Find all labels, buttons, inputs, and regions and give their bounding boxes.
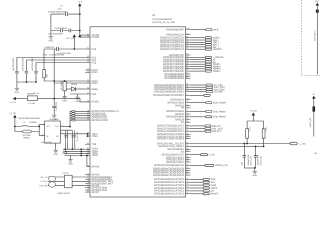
- power flag +3V3 left: [13, 115, 16, 118]
- wire rail gnd stub: [16, 82, 18, 87]
- net flag AUX_PW1 87.2: [206, 86, 213, 88]
- svg-text:caM_1uF/X5R: caM_1uF/X5R: [41, 141, 53, 144]
- wire C62 stem: [53, 99, 55, 106]
- U5 right pin numbers: [186, 27, 189, 194]
- net flag CH_PB2 91.6: [206, 91, 213, 93]
- power flag +1V1: [13, 97, 16, 100]
- wire R8 to SDA: [246, 138, 248, 143]
- wire to net flag CH_PB2 91.6: [191, 91, 206, 93]
- svg-text:TAS2WLM8978: TAS2WLM8978: [152, 18, 173, 21]
- junction clk riser: [69, 126, 71, 128]
- wire VCL stem: [73, 37, 75, 49]
- net flag SCL 182.2: [203, 181, 209, 183]
- ferrite bead FB5 on TDI: [72, 115, 76, 117]
- svg-text:44: 44: [186, 189, 188, 192]
- net flag WLRS 37.7: [205, 37, 211, 39]
- net flag AUD_PWM1 102.6: [206, 102, 212, 104]
- svg-text:66: 66: [186, 126, 188, 129]
- wire D2 cathode: [76, 88, 90, 90]
- capacitor C66 column: [71, 130, 76, 143]
- svg-text:HSMS: HSMS: [71, 83, 78, 86]
- svg-text:GND: GND: [68, 163, 73, 166]
- svg-text:48: 48: [87, 81, 89, 84]
- wire C52 branch: [51, 13, 80, 15]
- wire X2 gnd stem: [55, 143, 57, 149]
- svg-text:Y2_WCLK: Y2_WCLK: [76, 131, 79, 142]
- ground mid A: [75, 96, 79, 100]
- svg-text:85: 85: [186, 69, 188, 72]
- svg-text:48: 48: [186, 177, 188, 180]
- wire jtag TCK: [70, 110, 90, 112]
- capacitor C62: [52, 106, 56, 107]
- wire C63 riser: [243, 144, 245, 156]
- power flag VDD_1V8: [78, 34, 81, 37]
- wire to net flag CMOS_CLK 165.3: [191, 164, 205, 166]
- capacitor C61: [34, 72, 38, 73]
- wire to net flag A1 59.6: [191, 59, 206, 61]
- svg-text:75: 75: [186, 100, 188, 103]
- common-mode choke L4 winding B: [49, 182, 56, 187]
- svg-text:CMOS_CLK: CMOS_CLK: [215, 164, 228, 167]
- junction cap rail: [64, 148, 66, 150]
- svg-text:53: 53: [186, 163, 188, 166]
- junction dbg 151.3: [80, 150, 82, 152]
- wire C62 gnd stub: [53, 108, 55, 113]
- svg-text:EVK_PW: EVK_PW: [40, 184, 48, 187]
- svg-text:GPIO43/WLRXP: GPIO43/WLRXP: [166, 28, 184, 31]
- wire C64 riser: [255, 146, 257, 155]
- wire I2C SCL bus: [191, 145, 264, 147]
- wire row94 gnd stub: [77, 94, 79, 96]
- svg-text:GPIO18/SDA/SCL4/TXC2: GPIO18/SDA/SCL4/TXC2: [154, 193, 185, 196]
- svg-text:73: 73: [186, 106, 188, 109]
- wire to net flag GAIN 185.1: [191, 184, 204, 186]
- svg-text:TD8: TD8: [92, 143, 97, 146]
- ground near C53: [49, 35, 53, 39]
- svg-text:LED_PWM1: LED_PWM1: [213, 110, 226, 113]
- svg-text:RESET: RESET: [211, 193, 219, 196]
- svg-text:CH_PB2: CH_PB2: [214, 91, 224, 94]
- svg-text:GND: GND: [75, 100, 80, 103]
- svg-text:69: 69: [186, 117, 188, 120]
- U5 right pin names: [153, 28, 185, 195]
- wire C56 to R6: [43, 49, 45, 70]
- wire to net flag RELAY2 131.2: [191, 130, 205, 132]
- junction gnd rail: [254, 167, 256, 169]
- svg-text:RELAY1: RELAY1: [212, 125, 221, 128]
- net flag L_I2C: [290, 142, 297, 145]
- diode D2: [72, 87, 76, 92]
- svg-text:1.1uF/25V/X5R: 1.1uF/25V/X5R: [57, 52, 71, 55]
- svg-text:93: 93: [186, 47, 188, 50]
- svg-text:GPIO36/SPWM/CMP1/WKT: GPIO36/SPWM/CMP1/WKT: [154, 90, 184, 93]
- net flag PAL_I 46.9: [205, 46, 211, 48]
- net flag RELAY1 125.9: [205, 125, 211, 127]
- svg-text:SAL_OUT: SAL_OUT: [212, 127, 223, 130]
- wire C64 lower: [255, 157, 257, 168]
- svg-text:50V/X7R: 50V/X7R: [259, 156, 262, 166]
- wire gnd rail stem: [254, 168, 256, 170]
- resistor R8: [246, 129, 249, 138]
- net flag A1 59.6: [205, 59, 211, 61]
- svg-text:70: 70: [87, 164, 89, 167]
- resistor R9: [262, 129, 265, 138]
- svg-text:71: 71: [186, 112, 188, 115]
- wire gnd hop: [70, 155, 72, 158]
- net flag SDA 179.3: [203, 178, 209, 180]
- wire to net flag INR_I 44.6: [191, 44, 206, 46]
- junction +1V8/C53: [79, 30, 81, 32]
- svg-text:43: 43: [186, 191, 188, 194]
- svg-text:C1uF/16V: C1uF/16V: [55, 101, 58, 111]
- net flag CMOS_CLK 165.3: [205, 164, 214, 166]
- svg-text:67: 67: [87, 153, 89, 156]
- junction dbg 149.2: [80, 148, 82, 150]
- svg-text:CO: CO: [56, 135, 59, 138]
- wire I2C SDA bus: [191, 143, 291, 145]
- junction co b: [87, 135, 89, 137]
- wire to net flag LPD_I 42.3: [191, 41, 206, 43]
- svg-text:65: 65: [186, 129, 188, 132]
- wire dbg row 149.2: [63, 148, 90, 150]
- wire to net flag CMPS 188.0: [191, 187, 204, 189]
- svg-text:LQFP100_I2S_PA_GND: LQFP100_I2S_PA_GND: [152, 21, 175, 24]
- wire cap gnd rail: [244, 167, 255, 169]
- svg-text:B9601: B9601: [27, 92, 35, 95]
- svg-text:PL_WAKE: PL_WAKE: [60, 80, 63, 90]
- svg-text:WLF/ANT1: WLF/ANT1: [314, 29, 317, 41]
- net flag unnamed 95.3: [204, 94, 211, 96]
- wire to net flag RESET 193.8: [191, 193, 204, 195]
- svg-text:62: 62: [186, 136, 188, 139]
- inductor L3: [15, 125, 39, 126]
- svg-text:FL1B: FL1B: [29, 102, 36, 105]
- svg-text:+3_3V: +3_3V: [250, 110, 258, 113]
- capacitor C52: [66, 12, 68, 16]
- wire to net flag RELAY1 125.9: [191, 125, 205, 127]
- U5 right pin stubs: [186, 30, 191, 194]
- capacitor C60: [25, 72, 29, 73]
- net flag WLA 40.0: [205, 39, 211, 41]
- capacitor C56: [57, 47, 59, 51]
- junction row81: [53, 80, 55, 82]
- junction rail C60: [26, 81, 28, 83]
- svg-text:LVD_W: LVD_W: [41, 180, 48, 183]
- ferrite bead FL1: [27, 96, 37, 101]
- junction dbg 153.4: [80, 153, 82, 155]
- svg-text:C53/100nF: C53/100nF: [54, 27, 68, 30]
- junction dbg 155.5: [80, 155, 82, 157]
- crystal oscillator X2: [45, 121, 61, 143]
- wire to net flag WLRS 37.7: [191, 37, 206, 39]
- svg-text:49: 49: [186, 173, 188, 176]
- microcontroller U5: [90, 27, 186, 197]
- capacitor C63: [243, 156, 246, 157]
- net flag RELAY2 131.2: [205, 130, 211, 132]
- svg-text:GPIO38/SPWM/A: GPIO38/SPWM/A: [165, 77, 185, 80]
- wire row 94: [70, 93, 90, 95]
- wire dbg row 153.4: [65, 152, 91, 154]
- dashed RF section boundary: [302, 0, 320, 76]
- svg-text:47: 47: [186, 180, 188, 183]
- svg-text:PD2: PD2: [92, 61, 97, 64]
- net flag TEMP1 64.2: [205, 63, 211, 65]
- wire to net flag A0 61.9: [191, 61, 206, 63]
- wire jtag TDI: [70, 115, 90, 117]
- capacitor C65 column: [64, 130, 68, 143]
- ferrite bead FB8: [313, 106, 316, 111]
- junction VCL/C56: [73, 48, 75, 50]
- svg-text:50: 50: [87, 87, 89, 90]
- ground I2C caps: [253, 170, 257, 174]
- svg-text:VCL_1V8: VCL_1V8: [66, 37, 75, 40]
- wire +1V8 rail: [79, 6, 81, 34]
- svg-text:LWLRTS: LWLRTS: [213, 48, 223, 51]
- svg-text:+3_3V: +3_3V: [9, 112, 17, 115]
- wire to net flag CH_PB1 85.0: [191, 84, 206, 86]
- wire bus PD2: [36, 63, 90, 72]
- svg-text:B960: B960: [24, 137, 31, 140]
- ferrite bead FB7 on TRST: [72, 119, 76, 121]
- resistor R7: [63, 81, 66, 90]
- net flag WLR 29.6: [206, 29, 212, 31]
- wire jtag TMS: [70, 113, 90, 115]
- net flag RESET 193.8: [203, 193, 209, 195]
- svg-text:61: 61: [186, 141, 188, 144]
- junction +3V3 split: [14, 126, 16, 128]
- svg-text:TEMP4: TEMP4: [213, 70, 221, 73]
- junction L3 out: [38, 126, 40, 128]
- net flag LED_PWM2 116.8: [206, 116, 212, 118]
- wire VDD pins: [80, 35, 90, 37]
- svg-text:99: 99: [186, 32, 188, 35]
- svg-text:GPIO19/SNA/TXCMP3/LCO: GPIO19/SNA/TXCMP3/LCO: [153, 174, 184, 177]
- capacitor C54: [69, 29, 71, 32]
- wire bead branch: [15, 131, 39, 133]
- svg-text:GND: GND: [49, 40, 54, 43]
- wire to net flag L_RECHG 57.3: [191, 56, 206, 58]
- svg-text:57: 57: [186, 152, 188, 155]
- svg-text:PB15: PB15: [92, 82, 99, 85]
- wire to net flag LED_PWM1 111.4: [191, 110, 206, 112]
- svg-text:GPIO26/TXD2/TXCMP2: GPIO26/TXD2/TXCMP2: [157, 138, 185, 141]
- wire C53 branch: [51, 30, 80, 32]
- wire usb id: [48, 185, 90, 187]
- power flag +3V3 right: [252, 113, 255, 116]
- svg-text:100nF/X5R: 100nF/X5R: [247, 154, 250, 166]
- wire row 83: [54, 81, 90, 83]
- wire caps to rail: [17, 73, 36, 82]
- svg-text:76: 76: [186, 97, 188, 100]
- net flag AUX_PW2 89.4: [206, 88, 213, 90]
- svg-text:+1_1V: +1_1V: [9, 101, 17, 104]
- wire R6 to pin: [44, 78, 90, 81]
- junction C63 SDA: [243, 143, 245, 145]
- svg-text:1uF/25V/X5R: 1uF/25V/X5R: [12, 57, 15, 71]
- svg-text:USBLTRACE: USBLTRACE: [57, 192, 71, 195]
- net flag CE 190.9: [203, 190, 209, 192]
- svg-text:GPIO6: GPIO6: [92, 166, 100, 169]
- chassis ground under X2 caps: [63, 149, 68, 154]
- svg-text:GPIO41/TXCMP/CLX: GPIO41/TXCMP/CLX: [160, 48, 184, 51]
- svg-text:45: 45: [87, 70, 89, 73]
- common-mode choke L4 winding A: [49, 176, 56, 181]
- ferrite bead FB2: [23, 130, 32, 133]
- ground under C62: [52, 114, 56, 118]
- ground X2 aux: [68, 158, 72, 162]
- wire to net flag WLA 40.0: [191, 39, 206, 41]
- wire to net flag AUX_PW2 89.4: [191, 88, 206, 90]
- wire R9 to SCL: [263, 138, 265, 146]
- wire R7 top: [64, 80, 66, 82]
- junction co a: [87, 133, 89, 135]
- svg-text:1: 1: [43, 122, 44, 125]
- svg-text:TIN1: TIN1: [92, 135, 99, 138]
- junction R8 SDA: [246, 143, 248, 145]
- wire to net flag LWLRTS 49.2: [191, 48, 206, 50]
- svg-text:VBAT_RF: VBAT_RF: [309, 117, 312, 128]
- wire gnd stub C53: [50, 31, 52, 36]
- power flag VCL_IN: [73, 34, 76, 37]
- svg-text:LED_PWM2: LED_PWM2: [213, 116, 226, 119]
- wire jtag TRST: [70, 119, 90, 121]
- wire to net flag WLR 29.6: [191, 29, 206, 31]
- svg-text:45: 45: [186, 186, 188, 189]
- net flag INR_I 44.6: [205, 44, 211, 46]
- net flag J_I2S 154.7: [201, 154, 208, 156]
- wire co pair link: [87, 134, 90, 136]
- svg-text:68: 68: [186, 120, 188, 123]
- wire to net flag AUX_PW1 87.2: [191, 86, 206, 88]
- svg-text:MU120B1H510B: MU120B1H510B: [19, 117, 41, 120]
- net flag LED_PWM1 111.4: [206, 110, 212, 112]
- net flag CH_PB1 85.0: [206, 84, 213, 86]
- wire D2 anode: [66, 88, 71, 90]
- svg-text:RSV1: RSV1: [92, 71, 99, 74]
- svg-text:J_I2S: J_I2S: [209, 154, 215, 157]
- wire to net flag TEMP4 71.1: [191, 70, 206, 72]
- wire to net flag row 95.3: [191, 94, 204, 96]
- junction C64 SCL: [255, 146, 257, 148]
- wire to net flag J_I2S 154.7: [191, 154, 201, 156]
- svg-text:RSVD1: RSVD1: [92, 101, 100, 104]
- svg-text:78: 78: [186, 89, 188, 92]
- svg-text:PDN: PDN: [92, 93, 97, 96]
- wire X2 cap feed: [60, 129, 72, 131]
- wire uart riser: [86, 156, 88, 167]
- svg-text:63: 63: [87, 142, 89, 145]
- wire X2 co out: [60, 133, 90, 135]
- svg-text:GND: GND: [15, 91, 20, 94]
- svg-text:72: 72: [186, 109, 188, 112]
- svg-text:37: 37: [87, 47, 89, 50]
- ground under X2: [54, 149, 58, 153]
- net flag TEMP3 68.8: [205, 68, 211, 70]
- wire R7 gnd stub: [64, 91, 66, 95]
- svg-text:82: 82: [186, 76, 188, 79]
- svg-text:GPIO12/TRST: GPIO12/TRST: [92, 119, 110, 122]
- wire jtag TDO: [70, 117, 90, 119]
- wire +1V1 to FL1: [16, 98, 27, 100]
- wire jtag riser: [69, 111, 71, 126]
- svg-text:1uF/25V/X5R: 1uF/25V/X5R: [31, 57, 34, 71]
- filter FL2: [65, 175, 73, 188]
- svg-text:TDO4: TDO4: [92, 154, 99, 157]
- wire left rail C52-C53: [50, 14, 52, 30]
- svg-text:GPIO7: GPIO7: [92, 191, 100, 194]
- wire usb dm: [48, 180, 90, 182]
- wire C62 riser: [53, 49, 55, 99]
- svg-text:100nF/50V/X5R: 100nF/50V/X5R: [48, 11, 67, 14]
- svg-text:67: 67: [186, 124, 188, 127]
- svg-text:GND: GND: [53, 153, 58, 156]
- svg-text:GND: GND: [252, 174, 257, 177]
- wire uart row: [87, 166, 90, 168]
- svg-text:B1: B1: [181, 121, 185, 124]
- junction R7 top: [64, 80, 66, 82]
- ground bypass rail: [15, 87, 19, 91]
- svg-text:51: 51: [87, 92, 89, 95]
- power flag +1V8: [78, 3, 81, 6]
- svg-text:46: 46: [186, 183, 188, 186]
- junction cap rail 2: [71, 148, 73, 150]
- wire dbg row 155.5: [65, 155, 91, 157]
- svg-text:100nF/X5R: 100nF/X5R: [257, 154, 260, 166]
- net flag L_RECHG 57.3: [205, 56, 211, 58]
- svg-text:C2: C2: [60, 5, 62, 8]
- wire bus PD1: [26, 60, 90, 71]
- svg-text:1uF/25V/X5R: 1uF/25V/X5R: [48, 32, 63, 35]
- wire osc feed riser: [39, 125, 45, 136]
- net flag LPD_I 42.3: [205, 41, 211, 43]
- svg-text:35: 35: [87, 35, 89, 38]
- U5 left pin names: [92, 34, 119, 194]
- net flag A0 61.9: [205, 61, 211, 63]
- svg-text:42: 42: [87, 60, 89, 63]
- wire to net flag SDA 179.3: [191, 178, 204, 180]
- capacitor C53: [61, 29, 63, 32]
- wire to net flag TEMP2 66.5: [191, 66, 206, 68]
- wire VBAT feed: [313, 99, 315, 137]
- junction +1V8/C52: [79, 13, 81, 15]
- wire bus PD0: [17, 58, 90, 72]
- wire to net flag LED_PWM2 116.8: [191, 116, 206, 118]
- wire C63 lower: [243, 157, 245, 168]
- wire to net flag PAL_I 46.9: [191, 46, 206, 48]
- svg-text:CE: CE: [211, 190, 215, 193]
- svg-text:58: 58: [186, 149, 188, 152]
- net flag SAL_OUT 128.5: [205, 128, 211, 130]
- wire to net flag SCL 182.2: [191, 181, 204, 183]
- svg-text:RELAY2: RELAY2: [212, 130, 221, 133]
- wire to net flag SAL_OUT 128.5: [191, 128, 205, 130]
- svg-text:1uF/25V/X5R: 1uF/25V/X5R: [22, 57, 25, 71]
- net flag TEMP2 66.5: [205, 66, 211, 68]
- wire pullup stem: [247, 116, 264, 129]
- svg-text:53: 53: [87, 100, 89, 103]
- resistor R6: [43, 70, 46, 78]
- wire to net flag TEMP3 68.8: [191, 68, 206, 70]
- junction R9 SCL: [263, 146, 265, 148]
- svg-text:0.0065: 0.0065: [29, 121, 37, 124]
- ferrite bead FB4 on TMS: [72, 113, 76, 115]
- svg-text:AUD_PWM1: AUD_PWM1: [213, 102, 227, 105]
- wire to net flag AUD_PWM1 102.6: [191, 102, 206, 104]
- wire bottom rail: [17, 81, 36, 83]
- svg-text:GPIO35/SPWM3/TXCMP/WKT: GPIO35/SPWM3/TXCMP/WKT: [153, 94, 184, 97]
- wire X2 clk out: [60, 126, 70, 128]
- wire to net flag TEMP1 64.2: [191, 63, 206, 65]
